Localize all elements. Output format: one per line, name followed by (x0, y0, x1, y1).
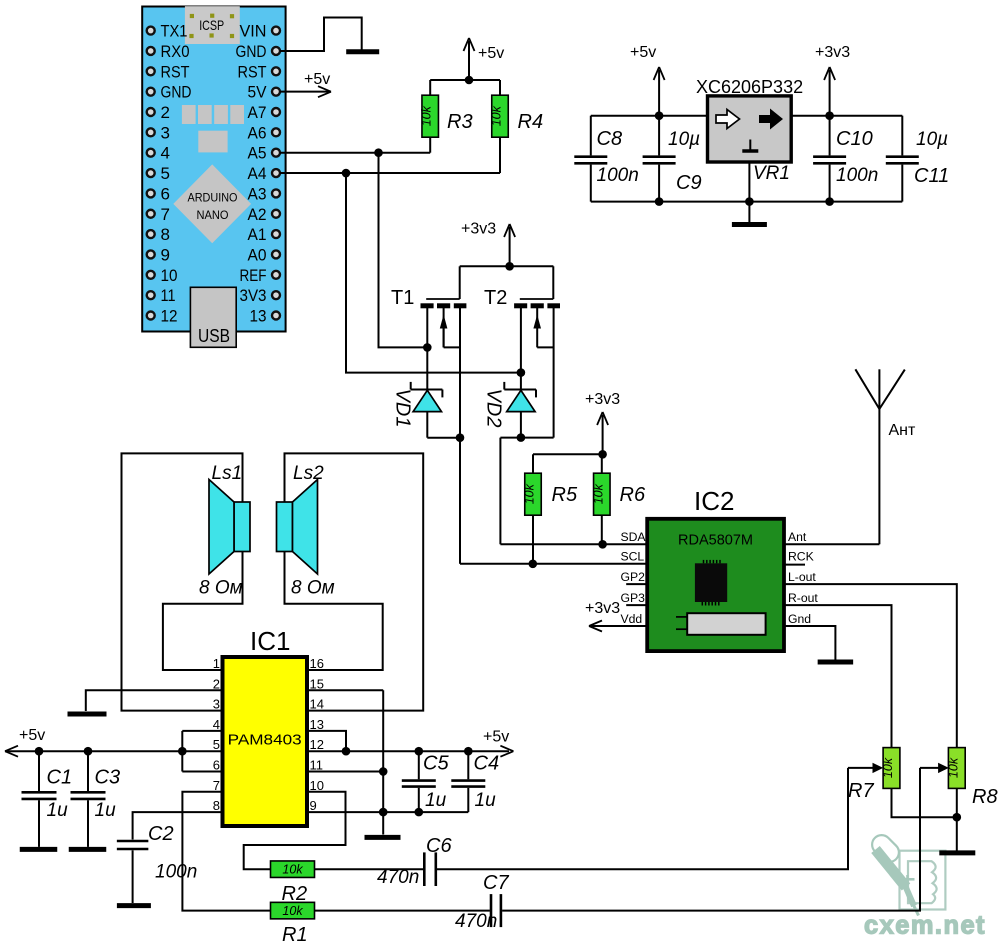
svg-text:15: 15 (310, 676, 324, 691)
svg-text:7: 7 (161, 205, 170, 224)
svg-text:+5v: +5v (304, 71, 330, 88)
svg-text:3: 3 (161, 123, 170, 142)
svg-text:C2: C2 (148, 823, 174, 845)
svg-text:+3v3: +3v3 (585, 391, 620, 408)
svg-text:C9: C9 (676, 172, 702, 194)
svg-text:USB: USB (198, 326, 230, 346)
svg-text:10µ: 10µ (668, 129, 700, 150)
svg-text:6: 6 (213, 758, 220, 773)
svg-text:10k: 10k (420, 105, 434, 126)
svg-text:A5: A5 (248, 144, 267, 163)
svg-text:GND: GND (161, 83, 192, 102)
svg-text:VIN: VIN (240, 22, 267, 41)
svg-text:GND: GND (236, 42, 267, 61)
svg-text:VD2: VD2 (483, 389, 505, 428)
svg-text:13: 13 (310, 717, 324, 732)
svg-text:10: 10 (161, 266, 178, 285)
svg-text:VD1: VD1 (392, 389, 414, 428)
svg-text:470n: 470n (455, 911, 497, 932)
svg-text:6: 6 (161, 184, 170, 203)
svg-text:A4: A4 (248, 164, 267, 183)
svg-text:10: 10 (310, 778, 324, 793)
svg-text:12: 12 (161, 307, 178, 326)
svg-text:1u: 1u (95, 800, 117, 821)
svg-text:Vdd: Vdd (621, 612, 643, 626)
svg-text:RST: RST (238, 62, 267, 81)
svg-text:9: 9 (310, 798, 317, 813)
svg-text:PAM8403: PAM8403 (228, 732, 302, 749)
svg-text:1u: 1u (475, 790, 497, 811)
svg-text:ICSP: ICSP (199, 17, 224, 33)
svg-text:3V3: 3V3 (240, 286, 267, 305)
svg-text:Ант: Ант (889, 422, 917, 439)
svg-text:T2: T2 (484, 287, 507, 309)
svg-text:+5v: +5v (630, 44, 656, 61)
svg-text:TX1: TX1 (161, 22, 188, 41)
svg-text:R3: R3 (447, 111, 473, 133)
svg-text:Ls2: Ls2 (293, 463, 324, 484)
svg-text:2: 2 (213, 676, 220, 691)
svg-text:3: 3 (213, 697, 220, 712)
svg-text:+5v: +5v (478, 45, 504, 62)
svg-text:12: 12 (310, 737, 324, 752)
svg-text:100n: 100n (836, 165, 878, 186)
svg-text:R5: R5 (552, 484, 578, 506)
svg-text:RX0: RX0 (161, 42, 190, 61)
svg-text:IC2: IC2 (694, 486, 734, 516)
svg-text:4: 4 (161, 144, 170, 163)
svg-text:C7: C7 (483, 872, 509, 894)
svg-text:A3: A3 (248, 184, 267, 203)
svg-text:R7: R7 (848, 780, 874, 802)
svg-text:Ls1: Ls1 (212, 463, 243, 484)
svg-text:T1: T1 (391, 287, 414, 309)
svg-text:XC6206P332: XC6206P332 (696, 77, 803, 97)
svg-text:10µ: 10µ (916, 129, 948, 150)
svg-text:L-out: L-out (788, 570, 816, 584)
svg-text:11: 11 (310, 758, 324, 773)
svg-text:IC1: IC1 (250, 626, 290, 656)
svg-text:1u: 1u (47, 800, 69, 821)
svg-text:5: 5 (161, 164, 170, 183)
svg-text:R6: R6 (620, 484, 646, 506)
svg-text:R-out: R-out (788, 591, 818, 605)
svg-text:A2: A2 (248, 205, 267, 224)
svg-text:C8: C8 (597, 128, 623, 150)
svg-text:C11: C11 (914, 165, 949, 187)
svg-text:14: 14 (310, 697, 324, 712)
svg-text:4: 4 (213, 717, 220, 732)
svg-text:10k: 10k (881, 757, 895, 778)
svg-text:C10: C10 (836, 128, 873, 150)
svg-text:7: 7 (213, 778, 220, 793)
svg-text:1u: 1u (425, 790, 447, 811)
svg-text:C3: C3 (95, 767, 121, 789)
svg-text:RDA5807M: RDA5807M (678, 533, 753, 549)
svg-text:C4: C4 (474, 753, 500, 775)
svg-text:RCK: RCK (788, 550, 814, 564)
svg-text:10k: 10k (490, 105, 504, 126)
svg-text:C5: C5 (423, 753, 449, 775)
svg-text:8: 8 (213, 798, 220, 813)
svg-text:GP3: GP3 (621, 591, 646, 605)
svg-text:10k: 10k (282, 863, 303, 877)
svg-text:R1: R1 (282, 924, 308, 945)
svg-text:A1: A1 (248, 225, 267, 244)
svg-text:2: 2 (161, 103, 170, 122)
svg-text:+3v3: +3v3 (585, 600, 620, 617)
svg-text:470n: 470n (377, 867, 419, 888)
svg-text:5V: 5V (248, 83, 268, 102)
svg-text:A7: A7 (248, 103, 267, 122)
svg-text:10k: 10k (523, 483, 537, 504)
svg-text:13: 13 (250, 307, 267, 326)
svg-text:16: 16 (310, 656, 324, 671)
svg-text:5: 5 (213, 737, 220, 752)
svg-text:+5v: +5v (483, 729, 509, 746)
svg-text:+5v: +5v (19, 727, 45, 744)
svg-text:10k: 10k (282, 904, 303, 918)
svg-text:A0: A0 (248, 245, 267, 264)
svg-text:SDA: SDA (621, 530, 647, 544)
svg-text:8 Ом: 8 Ом (291, 578, 335, 599)
svg-text:9: 9 (161, 245, 170, 264)
svg-text:GP2: GP2 (621, 570, 646, 584)
svg-text:Ant: Ant (788, 530, 807, 544)
svg-text:R8: R8 (972, 786, 998, 808)
svg-text:C6: C6 (426, 835, 452, 857)
svg-text:ARDUINO: ARDUINO (188, 191, 238, 205)
svg-text:RST: RST (161, 62, 190, 81)
svg-text:SCL: SCL (621, 550, 645, 564)
svg-text:REF: REF (240, 266, 267, 285)
svg-text:100n: 100n (597, 165, 639, 186)
svg-text:Gnd: Gnd (788, 612, 811, 626)
svg-text:cxem.net: cxem.net (864, 910, 986, 940)
svg-text:NANO: NANO (197, 208, 229, 222)
svg-text:R4: R4 (518, 111, 544, 133)
svg-text:100n: 100n (155, 862, 197, 883)
svg-text:A6: A6 (248, 123, 267, 142)
svg-text:+3v3: +3v3 (815, 44, 850, 61)
svg-text:1: 1 (213, 656, 220, 671)
svg-text:11: 11 (161, 286, 176, 305)
svg-text:10k: 10k (591, 483, 605, 504)
svg-text:+3v3: +3v3 (461, 221, 496, 238)
svg-text:C1: C1 (47, 767, 73, 789)
svg-text:10k: 10k (946, 757, 960, 778)
svg-text:8 Ом: 8 Ом (199, 578, 243, 599)
svg-text:8: 8 (161, 225, 170, 244)
svg-text:VR1: VR1 (753, 163, 790, 184)
